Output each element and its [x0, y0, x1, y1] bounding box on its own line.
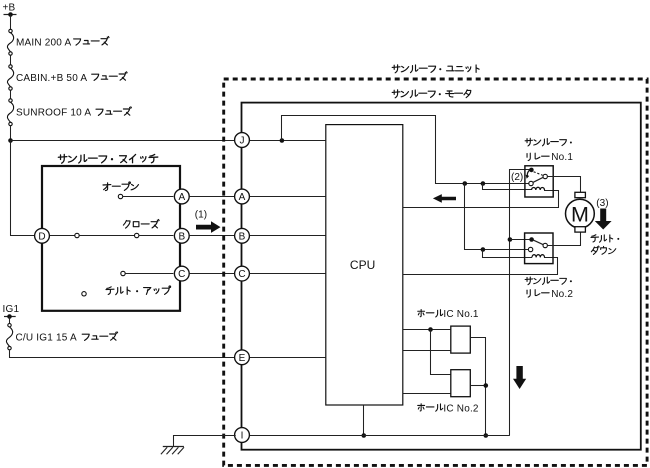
terminal B unit: [235, 228, 250, 243]
label SUNROOF 10 A fuse: [16, 107, 131, 119]
relay K2 box: [525, 233, 553, 264]
node hall join: [484, 383, 489, 388]
svg-text:C/U IG1 15 A: C/U IG1 15 A: [16, 333, 77, 344]
node hall to ground: [484, 433, 489, 438]
wire relay2 common: [510, 239, 532, 241]
wire E to CPU: [248, 357, 325, 359]
wire A to unit: [189, 196, 236, 198]
label MAIN 200 A fuse: [16, 37, 109, 49]
svg-text:No.1: No.1: [551, 152, 573, 163]
svg-text:C: C: [178, 269, 185, 280]
wire J power to relay1: [282, 116, 529, 184]
svg-text:M: M: [571, 203, 589, 227]
svg-text:B: B: [239, 231, 246, 242]
label sunroof motor title: [392, 90, 471, 98]
motor M body: [566, 199, 595, 228]
wire to J: [10, 140, 236, 142]
svg-text:CPU: CPU: [350, 258, 375, 272]
svg-text:D: D: [38, 231, 45, 242]
wire to junction: [10, 126, 12, 140]
contact tilt-up: [121, 271, 174, 275]
terminal B switch: [174, 228, 189, 243]
label hall IC No.1: [418, 309, 479, 320]
relay K1 power contact: [529, 181, 533, 185]
svg-text:E: E: [239, 353, 246, 364]
label tilt-down line1: [591, 235, 619, 242]
wire I bus: [248, 435, 510, 437]
svg-text:CABIN.+B 50 A: CABIN.+B 50 A: [16, 73, 87, 84]
wire to E: [10, 350, 236, 357]
arrow (2) curved: [526, 169, 532, 179]
wire ground bus vertical: [510, 170, 532, 436]
terminal I unit: [235, 428, 250, 443]
svg-text:No.2: No.2: [551, 289, 573, 300]
node +B: [3, 2, 17, 16]
label sunroof unit title: [392, 65, 479, 73]
terminal A switch: [174, 189, 189, 204]
wire hall feed to hall2: [431, 329, 451, 374]
arrow (1) right: [196, 221, 221, 233]
CPU box U1: [326, 125, 403, 405]
wire: [9, 317, 11, 324]
relay K2 coil: [532, 255, 545, 258]
label (1): [195, 209, 207, 220]
label open: [103, 182, 139, 191]
svg-text:(1): (1): [195, 209, 207, 220]
relay K1 coil: [532, 187, 545, 190]
svg-text:(3): (3): [596, 198, 608, 209]
relay K1 box: [525, 166, 553, 197]
terminal C switch: [174, 266, 189, 281]
sunroof motor box: [242, 103, 641, 450]
node junction B+: [8, 138, 13, 143]
wire hall1 out: [470, 338, 485, 436]
terminal E unit: [235, 350, 250, 365]
contact close left: [48, 233, 134, 237]
svg-text:C: C: [238, 269, 245, 280]
label sunroof switch title: [58, 154, 157, 163]
label relay2 line2: [527, 289, 573, 300]
fuse C/U IG1 15 A: [6, 324, 12, 350]
wire B to unit: [189, 235, 236, 237]
hall IC1 box: [451, 326, 471, 353]
switch box: [42, 166, 180, 311]
relay K1 dashed blade: [534, 172, 543, 176]
wire C to unit: [189, 273, 236, 275]
relay K2 blade: [533, 240, 543, 245]
node IG1: [3, 304, 20, 319]
node coil2 tap: [481, 247, 486, 252]
label tilt-up: [106, 286, 171, 295]
node power split 1: [463, 181, 468, 186]
svg-text:IC No.2: IC No.2: [443, 404, 479, 415]
relay K2 NO contact: [543, 243, 547, 247]
wire power to relay2: [465, 183, 529, 249]
svg-text:+B: +B: [3, 2, 16, 13]
label (2): [511, 172, 523, 183]
wire coil1 feed: [483, 183, 532, 189]
contact open: [118, 194, 173, 198]
wire C to CPU: [248, 273, 325, 275]
svg-text:SUNROOF 10 A: SUNROOF 10 A: [16, 108, 91, 119]
contact close right: [135, 233, 174, 237]
label tilt-down line2: [591, 246, 615, 254]
label relay1 line2: [527, 152, 573, 163]
label close: [123, 220, 159, 229]
svg-text:A: A: [239, 192, 246, 203]
relay K2 power contact: [528, 247, 532, 251]
svg-text:A: A: [178, 192, 185, 203]
terminal A unit: [235, 189, 250, 204]
svg-text:(2): (2): [511, 172, 523, 183]
wire I to ground: [174, 436, 236, 447]
wire down to D: [10, 140, 36, 236]
node junction J: [280, 138, 285, 143]
fuse SUNROOF 10 A: [7, 99, 13, 126]
relay K1 NO contact: [543, 174, 547, 178]
fuse MAIN 200 A: [7, 29, 13, 55]
label C/U IG1 15 A fuse: [16, 332, 118, 344]
label CABIN.+B 50 A fuse: [16, 72, 127, 84]
wire coil2 feed: [483, 250, 533, 258]
wire J to CPU: [248, 140, 325, 142]
relay K1 blade: [533, 177, 543, 182]
label relay1 line1: [525, 138, 572, 146]
wire K1 NO to motor: [547, 177, 580, 193]
wire A to CPU: [248, 196, 325, 198]
svg-text:I: I: [241, 431, 244, 442]
relay K1 common: [529, 168, 534, 173]
relay K2 common: [529, 237, 534, 242]
wire CPU to hall2 b: [403, 393, 451, 395]
wire CPU ground: [363, 405, 365, 435]
svg-text:IG1: IG1: [3, 304, 20, 315]
terminal D: [35, 228, 50, 243]
svg-text:B: B: [178, 231, 185, 242]
node CPU ground: [362, 433, 367, 438]
wire CPU to hall1 a: [403, 329, 451, 331]
motor M brush top: [575, 192, 586, 197]
svg-text:IC No.1: IC No.1: [443, 309, 479, 320]
ground chassis: [161, 447, 184, 455]
label CPU: [350, 258, 375, 272]
fuse CABIN.+B 50 A: [7, 65, 13, 90]
node relay2 common tap: [508, 237, 513, 242]
arrow down mid: [513, 366, 526, 389]
arrow (3) down: [595, 209, 612, 230]
label hall IC No.2: [418, 404, 479, 415]
label relay2 line1: [525, 277, 572, 285]
node coil1 tap: [481, 181, 486, 186]
label (3): [596, 198, 608, 209]
contact common pole: [82, 292, 86, 296]
wire: [10, 56, 12, 65]
wire CPU to relay1 coil: [403, 191, 559, 208]
hall IC2 box: [451, 370, 471, 397]
svg-text:MAIN 200 A: MAIN 200 A: [16, 37, 71, 48]
svg-text:J: J: [240, 136, 245, 147]
wire CPU to hall1 b: [403, 350, 451, 352]
wire K2 NO to motor: [547, 232, 580, 246]
wire hall2 out: [470, 385, 486, 387]
arrow left near CPU: [433, 194, 456, 203]
wire +B down: [10, 15, 12, 30]
motor M brush bottom: [575, 227, 586, 232]
terminal C unit: [235, 266, 250, 281]
wire CPU to relay2 coil: [403, 258, 558, 275]
sunroof unit dashed box: [224, 79, 647, 465]
wire B to CPU: [248, 235, 325, 237]
terminal J: [235, 133, 250, 148]
wire: [10, 91, 12, 99]
node hall feed split: [428, 327, 433, 332]
